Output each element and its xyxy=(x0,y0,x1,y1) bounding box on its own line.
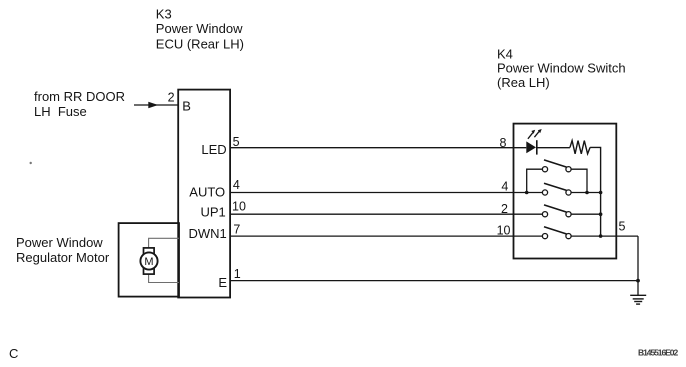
svg-text:B: B xyxy=(182,98,191,113)
wire: pin4 row right segment to bus xyxy=(571,192,601,194)
svg-text:K4: K4 xyxy=(497,46,513,61)
wire: K3 pin 4 to K4 pin 4 (left segment to switch contact) xyxy=(230,192,542,194)
svg-text:10: 10 xyxy=(232,199,246,213)
wire: pin10 row to K4 pin 5 and to ground drop xyxy=(571,235,638,237)
scan speck artifact xyxy=(30,162,32,164)
svg-text:from RR DOOR: from RR DOOR xyxy=(34,89,125,104)
svg-text:AUTO: AUTO xyxy=(189,185,225,200)
svg-text:4: 4 xyxy=(501,180,508,194)
LED D1 (triangle and cathode bar) xyxy=(526,140,537,154)
svg-text:B145516E02: B145516E02 xyxy=(638,348,678,358)
wire: LED cathode to resistor xyxy=(537,147,570,149)
junction: pin10 row on bus xyxy=(599,234,603,238)
wire: vertical drop to ground xyxy=(637,236,639,295)
LED D1 emission arrows xyxy=(528,129,542,139)
junction: pin4 row on bus xyxy=(599,191,603,195)
label: K3 Power Window ECU (Rear LH) xyxy=(156,6,244,51)
label: K4 Power Window Switch (Rea LH) xyxy=(497,46,626,89)
svg-text:LH Fuse: LH Fuse xyxy=(34,104,87,119)
switch S4 (pin 10 row) contacts and lever xyxy=(542,227,571,239)
ECU K3 box xyxy=(178,90,230,298)
wire: K3 pin 7 to K4 pin 10 (left segment to switch contact) xyxy=(230,235,542,237)
junction: bracket right on pin4 row xyxy=(585,191,589,195)
label: from RR DOOR LH Fuse xyxy=(34,89,125,119)
svg-text:(Rea LH): (Rea LH) xyxy=(497,75,550,90)
motor M1 circle with M xyxy=(140,252,157,269)
wire: motor lower lead to K3 left side xyxy=(149,274,179,282)
wire: resistor to right bus elbow xyxy=(590,147,601,236)
svg-text:5: 5 xyxy=(619,220,626,234)
svg-text:M: M xyxy=(144,256,153,268)
Power Window Regulator Motor box xyxy=(119,223,179,297)
ground symbol xyxy=(630,295,646,304)
svg-text:Power Window: Power Window xyxy=(16,235,103,250)
wire: K3 pin 1 (E) to ground node xyxy=(230,280,638,282)
svg-text:7: 7 xyxy=(233,223,240,237)
svg-text:Power Window: Power Window xyxy=(156,21,243,36)
svg-text:LED: LED xyxy=(201,142,226,157)
svg-text:Power Window Switch: Power Window Switch xyxy=(497,61,626,76)
svg-text:Regulator Motor: Regulator Motor xyxy=(16,250,110,265)
svg-text:2: 2 xyxy=(168,91,175,105)
switch S3 (pin 2 row) contacts and lever xyxy=(542,205,571,217)
svg-text:E: E xyxy=(218,275,227,290)
wire: K3 pin 5 to K4 pin 8 (LED anode) xyxy=(230,147,526,149)
motor M1 body xyxy=(144,248,155,274)
junction: bracket left on pin4 row xyxy=(525,191,529,195)
switch S2 (pin 4 row) contacts and lever xyxy=(542,183,571,195)
wire: K3 pin 10 to K4 pin 2 (left segment to switch contact) xyxy=(230,213,542,215)
svg-text:8: 8 xyxy=(500,136,507,150)
label: Power Window Regulator Motor xyxy=(16,235,110,265)
K4 switch box xyxy=(514,124,617,259)
svg-text:C: C xyxy=(9,346,18,361)
svg-text:5: 5 xyxy=(233,135,240,149)
resistor R1 (zigzag) xyxy=(570,141,590,154)
wire: motor upper lead to K3 left side xyxy=(149,238,179,248)
svg-text:ECU (Rear LH): ECU (Rear LH) xyxy=(156,36,244,51)
svg-text:1: 1 xyxy=(234,267,241,281)
svg-text:K3: K3 xyxy=(156,6,172,21)
wire: pin2 row right segment to bus xyxy=(571,213,601,215)
junction: pin2 row on bus xyxy=(599,212,603,216)
junction: E wire meets ground drop xyxy=(636,279,640,283)
AUTO upper contact bracket (right) xyxy=(571,169,587,192)
switch S1 upper (AUTO) contacts and lever xyxy=(542,160,571,172)
AUTO upper contact bracket (left) xyxy=(527,169,543,192)
svg-text:10: 10 xyxy=(497,224,511,238)
svg-text:2: 2 xyxy=(501,202,508,216)
wire: input from RR DOOR LH Fuse with arrow into K3 pin 2 xyxy=(134,102,179,109)
svg-text:4: 4 xyxy=(233,178,240,192)
svg-text:DWN1: DWN1 xyxy=(189,226,227,241)
svg-text:UP1: UP1 xyxy=(201,204,226,219)
